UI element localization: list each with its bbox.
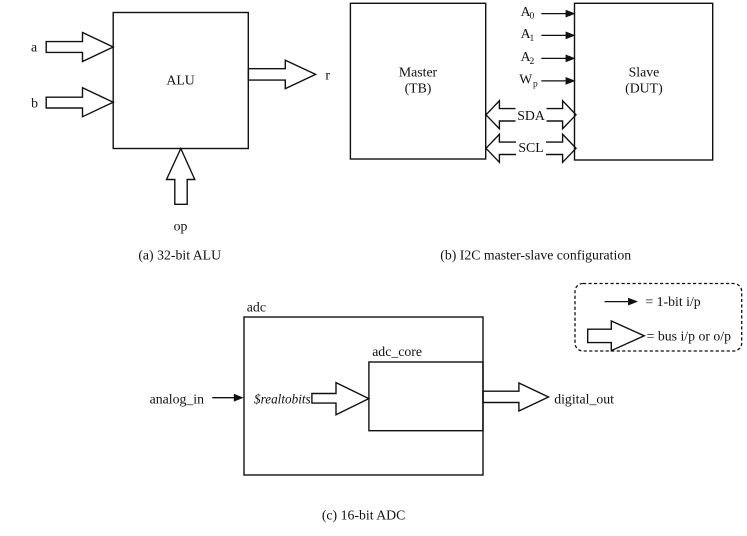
wire A1: [541, 32, 575, 40]
svg-text:Slave: Slave: [629, 65, 660, 80]
bus arrow SCL: [486, 134, 576, 162]
svg-text:2: 2: [530, 57, 535, 67]
svg-text:(TB): (TB): [405, 81, 432, 97]
bus arrow op: [167, 149, 195, 205]
legend wire 1-bit: [605, 298, 639, 306]
svg-text:= bus i/p or o/p: = bus i/p or o/p: [647, 328, 732, 343]
svg-text:SCL: SCL: [518, 140, 543, 155]
svg-text:$realtobits: $realtobits: [254, 391, 311, 406]
legend bus arrow: [588, 321, 645, 351]
block ALU (a): [113, 13, 248, 149]
svg-text:= 1-bit i/p: = 1-bit i/p: [645, 294, 700, 309]
svg-text:(a) 32-bit ALU: (a) 32-bit ALU: [138, 247, 221, 263]
svg-text:(b) I2C master-slave configura: (b) I2C master-slave configuration: [440, 247, 631, 263]
bus arrow SDA: [486, 101, 576, 129]
wire analog_in: [212, 394, 243, 402]
block Master TB: [350, 3, 485, 159]
svg-text:digital_out: digital_out: [554, 391, 614, 406]
svg-text:ALU: ALU: [166, 72, 194, 87]
bus arrow digital_out: [483, 383, 549, 411]
label SCL: [516, 140, 546, 156]
label A1: [521, 26, 535, 44]
wire Wp: [541, 77, 575, 85]
block adc: [244, 317, 483, 475]
label A0: [521, 4, 535, 22]
svg-text:(c) 16-bit ADC: (c) 16-bit ADC: [322, 508, 406, 524]
label A2: [521, 49, 535, 67]
svg-text:b: b: [31, 96, 38, 111]
svg-text:1: 1: [530, 34, 535, 44]
svg-text:adc_core: adc_core: [372, 344, 422, 359]
svg-text:W: W: [519, 71, 532, 86]
block Slave DUT: [575, 3, 713, 160]
svg-text:(DUT): (DUT): [625, 81, 663, 97]
bus arrow r: [248, 60, 315, 88]
label Wp: [519, 71, 538, 89]
svg-text:analog_in: analog_in: [150, 391, 205, 406]
svg-text:r: r: [325, 68, 330, 83]
svg-text:0: 0: [530, 12, 535, 22]
bus arrow a: [46, 33, 113, 62]
bus arrow b: [46, 88, 113, 117]
wire A2: [541, 55, 575, 63]
bus arrow realtobits to adc_core: [312, 383, 369, 415]
svg-text:a: a: [31, 40, 37, 55]
svg-text:p: p: [533, 80, 538, 90]
svg-text:op: op: [174, 218, 188, 233]
label SDA: [516, 107, 547, 123]
svg-text:adc: adc: [247, 300, 266, 315]
block adc_core: [369, 362, 483, 431]
svg-text:SDA: SDA: [517, 108, 545, 123]
legend box: [575, 284, 742, 352]
svg-text:Master: Master: [399, 65, 438, 80]
wire A0: [541, 10, 575, 18]
